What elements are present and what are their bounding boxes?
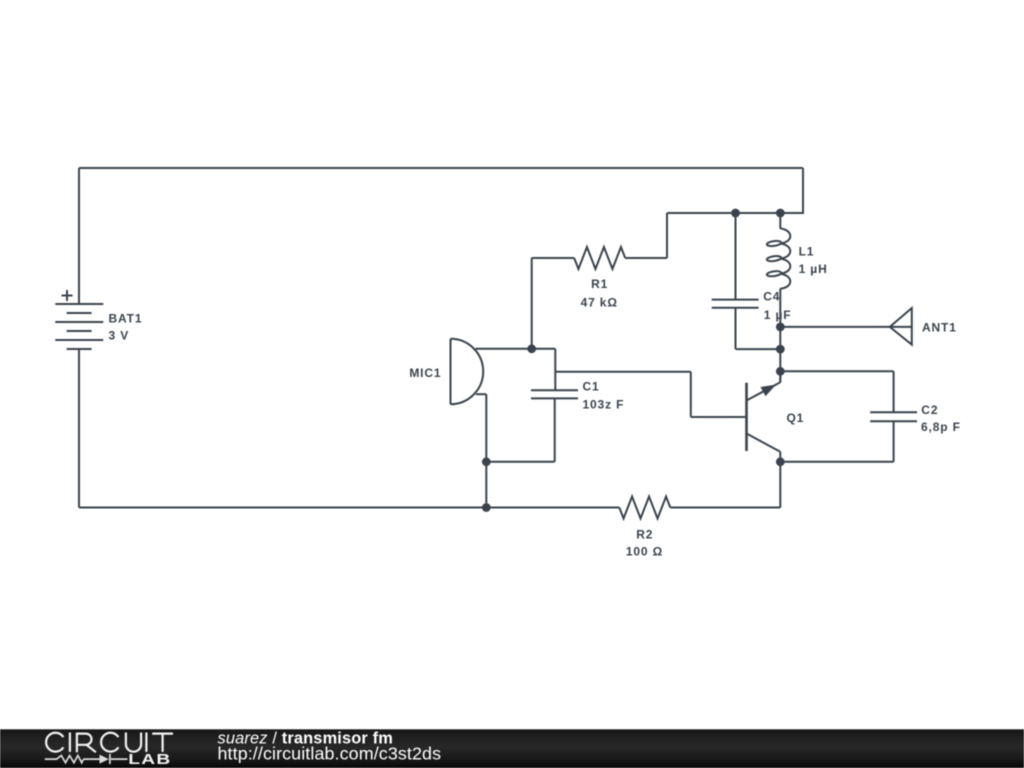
- svg-text:BAT1: BAT1: [109, 311, 143, 325]
- svg-text:C1: C1: [583, 379, 600, 393]
- svg-text:103z F: 103z F: [583, 398, 625, 412]
- svg-text:R2: R2: [636, 528, 653, 542]
- svg-text:L1: L1: [799, 244, 815, 258]
- svg-text:Q1: Q1: [787, 411, 805, 425]
- svg-text:LAB: LAB: [128, 751, 171, 767]
- svg-text:6,8p F: 6,8p F: [921, 420, 961, 434]
- svg-text:47 kΩ: 47 kΩ: [581, 296, 618, 310]
- svg-text:1 µH: 1 µH: [799, 262, 828, 276]
- svg-text:ANT1: ANT1: [922, 321, 957, 335]
- svg-text:C2: C2: [921, 403, 938, 417]
- svg-text:C4: C4: [763, 289, 780, 303]
- svg-text:3 V: 3 V: [109, 329, 130, 343]
- svg-text:MIC1: MIC1: [409, 366, 441, 380]
- svg-text:100 Ω: 100 Ω: [626, 545, 663, 559]
- svg-text:http://circuitlab.com/c3st2ds: http://circuitlab.com/c3st2ds: [218, 744, 442, 764]
- svg-text:1 µF: 1 µF: [764, 308, 792, 322]
- svg-text:R1: R1: [591, 277, 608, 291]
